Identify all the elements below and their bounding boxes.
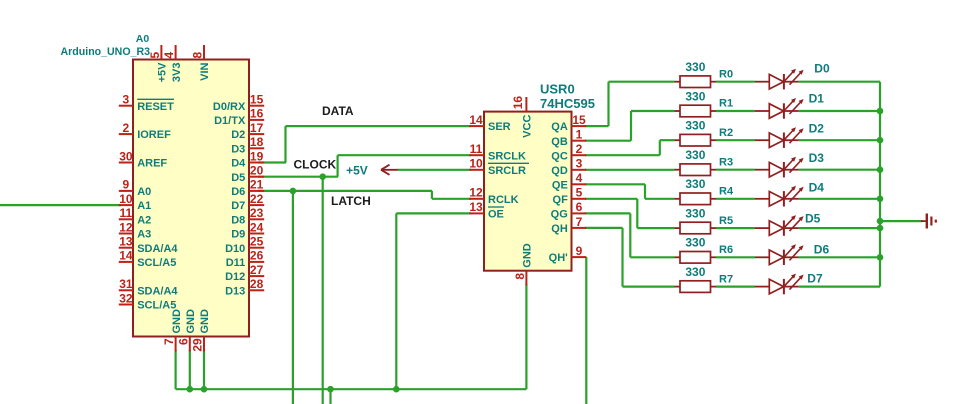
svg-text:9: 9: [576, 244, 583, 258]
svg-text:10: 10: [119, 192, 133, 206]
svg-text:18: 18: [250, 135, 264, 149]
svg-text:SRCLR: SRCLR: [488, 165, 526, 177]
svg-text:D11: D11: [226, 257, 246, 269]
svg-text:OE: OE: [488, 209, 504, 221]
svg-text:R0: R0: [719, 68, 733, 80]
svg-text:9: 9: [123, 178, 130, 192]
svg-text:330: 330: [685, 148, 705, 162]
svg-text:DATA: DATA: [322, 104, 354, 118]
svg-text:11: 11: [120, 206, 133, 220]
svg-text:D6: D6: [231, 186, 245, 198]
svg-text:D3: D3: [809, 151, 825, 165]
svg-text:R3: R3: [719, 156, 733, 168]
svg-text:RESET: RESET: [137, 101, 174, 113]
svg-text:SCL/A5: SCL/A5: [137, 257, 176, 269]
svg-text:330: 330: [685, 89, 705, 103]
svg-text:32: 32: [119, 291, 133, 305]
svg-text:2: 2: [576, 142, 583, 156]
svg-text:GND: GND: [199, 309, 211, 334]
svg-text:D2: D2: [231, 129, 245, 141]
svg-text:D6: D6: [814, 243, 830, 257]
svg-text:15: 15: [250, 93, 264, 107]
svg-text:330: 330: [685, 236, 705, 250]
svg-text:D0/RX: D0/RX: [213, 101, 246, 113]
svg-text:IOREF: IOREF: [137, 129, 171, 141]
svg-text:D7: D7: [231, 200, 245, 212]
svg-text:29: 29: [191, 338, 205, 352]
svg-text:QH': QH': [549, 252, 569, 264]
svg-text:26: 26: [250, 249, 264, 263]
svg-text:4: 4: [576, 171, 583, 185]
svg-text:14: 14: [119, 249, 133, 263]
svg-text:3: 3: [576, 157, 583, 171]
svg-text:28: 28: [250, 277, 264, 291]
svg-text:30: 30: [119, 149, 133, 163]
svg-text:25: 25: [250, 235, 264, 249]
svg-text:Arduino_UNO_R3: Arduino_UNO_R3: [61, 46, 151, 58]
svg-text:11: 11: [470, 142, 483, 156]
svg-text:D5: D5: [805, 212, 821, 226]
svg-text:QG: QG: [551, 209, 568, 221]
svg-text:D12: D12: [225, 271, 245, 283]
svg-text:D8: D8: [231, 214, 245, 226]
svg-text:330: 330: [685, 207, 705, 221]
svg-text:20: 20: [250, 164, 264, 178]
svg-text:1: 1: [576, 128, 583, 142]
svg-text:13: 13: [119, 235, 133, 249]
svg-text:3: 3: [123, 93, 130, 107]
svg-text:R1: R1: [719, 98, 733, 110]
svg-text:19: 19: [250, 149, 264, 163]
svg-text:RCLK: RCLK: [488, 194, 519, 206]
svg-text:12: 12: [119, 220, 133, 234]
svg-text:6: 6: [176, 338, 190, 345]
svg-text:SDA/A4: SDA/A4: [137, 285, 178, 297]
svg-text:24: 24: [250, 220, 264, 234]
svg-text:GND: GND: [185, 309, 197, 334]
svg-text:QH: QH: [551, 223, 568, 235]
svg-text:D5: D5: [231, 172, 245, 184]
svg-text:D3: D3: [231, 143, 245, 155]
svg-text:5: 5: [576, 186, 583, 200]
svg-text:330: 330: [685, 119, 705, 133]
svg-text:A3: A3: [137, 229, 151, 241]
svg-text:D13: D13: [225, 285, 245, 297]
svg-text:23: 23: [250, 206, 264, 220]
svg-text:16: 16: [250, 107, 264, 121]
svg-text:USR0: USR0: [540, 82, 575, 97]
svg-text:14: 14: [469, 113, 483, 127]
svg-text:VCC: VCC: [522, 115, 534, 138]
svg-text:R6: R6: [719, 244, 733, 256]
svg-text:SER: SER: [488, 121, 511, 133]
svg-text:VIN: VIN: [199, 62, 211, 80]
svg-text:12: 12: [469, 186, 483, 200]
svg-text:330: 330: [685, 60, 705, 74]
svg-text:7: 7: [162, 338, 176, 345]
svg-text:SDA/A4: SDA/A4: [137, 243, 178, 255]
svg-text:330: 330: [685, 177, 705, 191]
svg-text:D4: D4: [809, 181, 825, 195]
svg-text:D1/TX: D1/TX: [214, 115, 246, 127]
svg-text:D10: D10: [225, 243, 245, 255]
svg-text:3V3: 3V3: [171, 63, 183, 83]
svg-text:QE: QE: [552, 179, 568, 191]
svg-text:5: 5: [148, 52, 162, 59]
svg-text:A0: A0: [137, 186, 151, 198]
svg-text:LATCH: LATCH: [331, 194, 371, 208]
svg-text:7: 7: [576, 215, 583, 229]
svg-text:6: 6: [576, 200, 583, 214]
svg-text:D2: D2: [809, 121, 825, 135]
svg-text:31: 31: [119, 277, 133, 291]
svg-text:D1: D1: [809, 91, 825, 105]
svg-text:R4: R4: [719, 186, 734, 198]
svg-text:QD: QD: [551, 165, 568, 177]
svg-text:2: 2: [123, 121, 130, 135]
svg-text:D9: D9: [231, 229, 245, 241]
svg-text:AREF: AREF: [137, 158, 167, 170]
svg-text:27: 27: [250, 263, 264, 277]
svg-text:D7: D7: [807, 271, 823, 285]
svg-text:A1: A1: [137, 200, 151, 212]
svg-text:SRCLK: SRCLK: [488, 150, 526, 162]
svg-text:CLOCK: CLOCK: [294, 158, 337, 172]
svg-text:+5V: +5V: [346, 163, 368, 177]
svg-text:21: 21: [250, 178, 264, 192]
svg-text:17: 17: [250, 121, 264, 135]
svg-text:GND: GND: [171, 309, 183, 334]
svg-text:R2: R2: [719, 127, 733, 139]
svg-text:A0: A0: [136, 33, 150, 45]
svg-text:16: 16: [511, 96, 525, 110]
svg-text:74HC595: 74HC595: [540, 96, 595, 111]
svg-text:10: 10: [469, 157, 483, 171]
svg-text:D0: D0: [814, 61, 830, 75]
svg-text:QF: QF: [553, 194, 569, 206]
svg-text:GND: GND: [522, 243, 534, 268]
svg-text:15: 15: [572, 113, 586, 127]
svg-text:8: 8: [191, 52, 205, 59]
svg-text:+5V: +5V: [157, 62, 169, 83]
svg-text:D4: D4: [231, 158, 246, 170]
svg-text:22: 22: [250, 192, 264, 206]
svg-text:A2: A2: [137, 214, 151, 226]
svg-text:8: 8: [513, 273, 527, 280]
svg-text:QC: QC: [551, 150, 568, 162]
svg-text:QA: QA: [551, 121, 568, 133]
svg-text:R7: R7: [719, 273, 733, 285]
svg-text:330: 330: [685, 265, 705, 279]
svg-text:QB: QB: [551, 136, 568, 148]
svg-text:13: 13: [469, 200, 483, 214]
svg-text:R5: R5: [719, 215, 733, 227]
svg-text:4: 4: [162, 52, 176, 59]
